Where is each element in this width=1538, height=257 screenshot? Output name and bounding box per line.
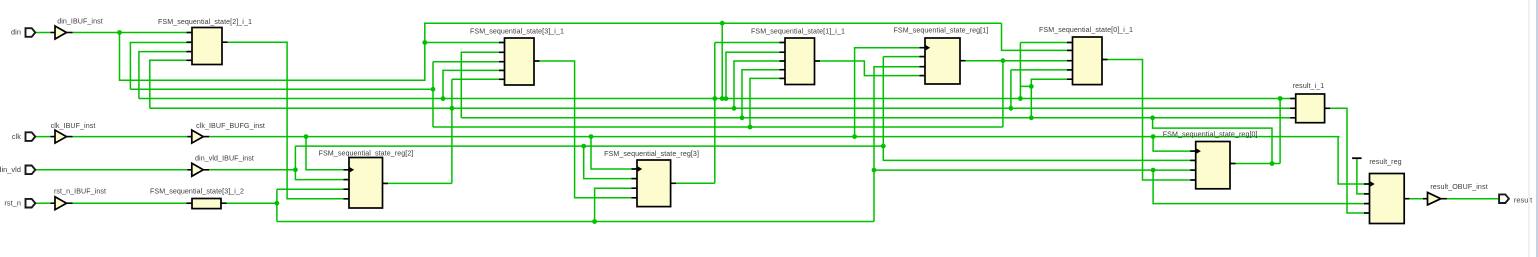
svg-text:result_OBUF_inst: result_OBUF_inst <box>1430 183 1487 191</box>
svg-text:clk_IBUF_BUFG_inst: clk_IBUF_BUFG_inst <box>196 122 265 130</box>
svg-text:FSM_sequential_state[1]_i_1: FSM_sequential_state[1]_i_1 <box>751 27 845 35</box>
svg-text:rst_n_IBUF_inst: rst_n_IBUF_inst <box>54 187 106 195</box>
svg-text:FSM_sequential_state[3]_i_2: FSM_sequential_state[3]_i_2 <box>150 187 244 195</box>
svg-text:FSM_sequential_state_reg[2]: FSM_sequential_state_reg[2] <box>319 150 414 158</box>
svg-text:FSM_sequential_state_reg[3]: FSM_sequential_state_reg[3] <box>604 150 699 158</box>
svg-text:result_reg: result_reg <box>1369 158 1401 166</box>
svg-text:clk: clk <box>12 132 21 141</box>
svg-text:result_i_1: result_i_1 <box>1293 82 1325 90</box>
svg-text:din: din <box>11 28 21 37</box>
svg-text:din_vld_IBUF_inst: din_vld_IBUF_inst <box>195 154 254 162</box>
svg-text:din_IBUF_inst: din_IBUF_inst <box>57 18 103 26</box>
svg-text:FSM_sequential_state[3]_i_1: FSM_sequential_state[3]_i_1 <box>470 27 564 35</box>
svg-text:rst_n: rst_n <box>4 198 21 207</box>
svg-text:din_vld: din_vld <box>0 165 21 174</box>
svg-text:FSM_sequential_state[0]_i_1: FSM_sequential_state[0]_i_1 <box>1039 26 1133 34</box>
svg-text:FSM_sequential_state[2]_i_1: FSM_sequential_state[2]_i_1 <box>158 18 252 26</box>
svg-text:FSM_sequential_state_reg[0]: FSM_sequential_state_reg[0] <box>1163 131 1258 139</box>
svg-text:FSM_sequential_state_reg[1]: FSM_sequential_state_reg[1] <box>893 27 988 35</box>
svg-text:clk_IBUF_inst: clk_IBUF_inst <box>51 122 96 130</box>
